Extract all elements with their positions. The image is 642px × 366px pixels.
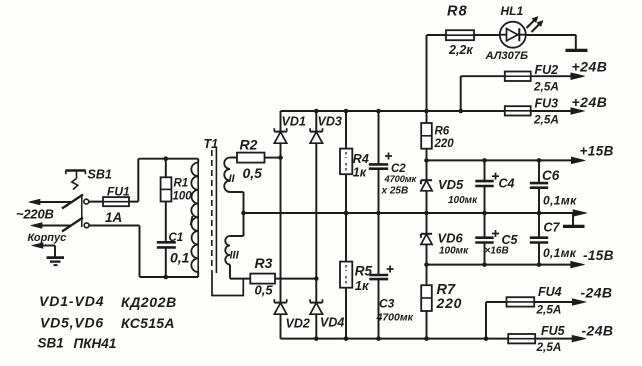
svg-text:R1: R1 xyxy=(174,178,189,190)
svg-text:0,5: 0,5 xyxy=(255,283,274,298)
svg-text:1к: 1к xyxy=(355,278,370,293)
svg-text:×16В: ×16В xyxy=(485,246,509,257)
svg-text:100: 100 xyxy=(173,191,193,203)
svg-text:100мк: 100мк xyxy=(439,246,469,257)
svg-text:~220В: ~220В xyxy=(16,207,54,222)
svg-text:АЛ307Б: АЛ307Б xyxy=(485,50,529,62)
svg-text:0,1мк: 0,1мк xyxy=(543,194,577,208)
svg-text:х 25В: х 25В xyxy=(381,186,409,197)
svg-text:VD1-VD4: VD1-VD4 xyxy=(39,293,104,309)
svg-text:220: 220 xyxy=(436,295,463,311)
svg-text:III: III xyxy=(230,250,240,262)
svg-text:VD6: VD6 xyxy=(438,231,464,246)
svg-text:FU5: FU5 xyxy=(541,324,566,338)
svg-text:2,5А: 2,5А xyxy=(536,340,562,354)
svg-text:4700мк: 4700мк xyxy=(384,174,418,184)
svg-text:2,5А: 2,5А xyxy=(533,113,559,127)
svg-text:ПКН41: ПКН41 xyxy=(74,336,117,351)
svg-text:-24В: -24В xyxy=(581,285,613,301)
svg-text:VD3: VD3 xyxy=(318,115,342,129)
svg-text:4700мк: 4700мк xyxy=(376,312,414,324)
svg-text:FU4: FU4 xyxy=(538,285,562,299)
svg-text:-15В: -15В xyxy=(583,248,614,263)
svg-text:0,5: 0,5 xyxy=(243,165,263,181)
svg-text:0,1: 0,1 xyxy=(170,250,190,266)
svg-text:FU1: FU1 xyxy=(107,185,130,199)
svg-text:SB1: SB1 xyxy=(38,336,64,351)
svg-text:VD1: VD1 xyxy=(282,115,306,129)
svg-text:С1: С1 xyxy=(169,232,184,244)
svg-text:FU3: FU3 xyxy=(535,97,559,111)
svg-text:R8: R8 xyxy=(447,4,468,20)
svg-text:-24В: -24В xyxy=(582,323,614,339)
svg-text:КД202В: КД202В xyxy=(121,294,177,310)
svg-text:VD4: VD4 xyxy=(320,316,344,330)
svg-text:VD2: VD2 xyxy=(286,317,310,331)
svg-text:VD5: VD5 xyxy=(438,177,464,192)
svg-text:1А: 1А xyxy=(105,210,122,225)
svg-text:+24В: +24В xyxy=(572,94,608,110)
svg-text:HL1: HL1 xyxy=(501,4,524,18)
svg-text:С6: С6 xyxy=(542,168,560,183)
svg-text:R3: R3 xyxy=(255,255,273,271)
svg-text:С4: С4 xyxy=(499,177,515,191)
svg-text:VD5,VD6: VD5,VD6 xyxy=(40,315,104,331)
svg-text:SB1: SB1 xyxy=(88,168,112,182)
svg-text:+24В: +24В xyxy=(572,59,608,75)
svg-text:FU2: FU2 xyxy=(535,63,559,77)
svg-text:С5: С5 xyxy=(502,233,519,247)
svg-text:2,5А: 2,5А xyxy=(533,80,559,94)
svg-text:R6: R6 xyxy=(435,126,450,138)
svg-text:0,1мк: 0,1мк xyxy=(543,246,577,260)
svg-text:С3: С3 xyxy=(379,297,395,311)
svg-text:100мк: 100мк xyxy=(448,195,478,206)
svg-text:220: 220 xyxy=(434,138,455,150)
svg-text:1к: 1к xyxy=(353,166,367,180)
svg-text:R4: R4 xyxy=(353,152,369,166)
svg-text:R2: R2 xyxy=(240,137,258,153)
svg-text:I: I xyxy=(190,213,194,228)
svg-text:2,2к: 2,2к xyxy=(448,43,473,57)
svg-text:КС515А: КС515А xyxy=(121,315,175,331)
svg-text:2,5А: 2,5А xyxy=(536,303,562,317)
svg-text:+15В: +15В xyxy=(580,144,614,159)
svg-text:С7: С7 xyxy=(544,221,561,235)
svg-text:Корпус: Корпус xyxy=(28,232,67,244)
svg-text:II: II xyxy=(229,173,236,185)
